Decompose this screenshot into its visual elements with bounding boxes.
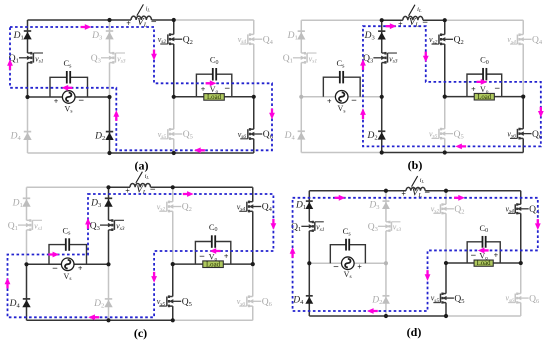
(d) wire q5-rail-upper [445, 263, 447, 294]
(a) transistor Q6 [240, 128, 262, 140]
(a) diode D2 [105, 132, 113, 140]
(d) capacitor Cs plates [346, 239, 349, 251]
(b) junction D3-top [380, 18, 384, 22]
(c) wire mid-rail-mid [108, 230, 110, 264]
(c) wire q2-rail-upper [172, 187, 174, 201]
(d) transistor Q4 [508, 203, 529, 214]
(d) resistor Load [474, 260, 493, 266]
(d) current arrow L [478, 248, 489, 254]
(c) wire mid-rail-lower [108, 264, 110, 320]
svg-text:(c): (c) [134, 326, 147, 340]
(a) source Vs [62, 91, 75, 104]
(d) inductor L [406, 187, 425, 190]
(b) wire q4-rail-mid [522, 44, 524, 97]
(b) wire source-right [348, 96, 382, 98]
(d) wire load-bus [446, 262, 521, 264]
(d) wire q4-rail-upper [520, 191, 522, 205]
svg-text:(b): (b) [408, 158, 423, 172]
(d) inductor current arrow iL [412, 176, 418, 187]
(a) current arrow D [269, 109, 275, 120]
(c) junction load-right [251, 262, 255, 266]
(a) transistor Q2 [160, 33, 182, 45]
(a) diode D3 [105, 31, 113, 39]
(a) wire q5-rail-lower [173, 139, 175, 153]
(a) inductor current arrow iL [137, 4, 144, 15]
(d) diode D1 [305, 201, 313, 209]
(b) wire top-mid-left [382, 19, 403, 21]
(d) capacitor Cs box [330, 245, 365, 264]
(c) wire source-right [74, 263, 109, 265]
(d) source Vs [342, 257, 355, 270]
(d) transistor Q1 [301, 221, 323, 232]
(a) resistor Load [204, 94, 225, 101]
(a) junction bottom-D2 [107, 151, 111, 155]
svg-text:+: + [494, 251, 499, 260]
(d) wire left-rail-upper [308, 191, 310, 222]
(a) wire q4-rail-upper [253, 20, 255, 34]
(d) wire top-left [309, 190, 386, 192]
svg-text:iL: iL [145, 173, 150, 180]
(b) wire q5-rail-lower [444, 138, 446, 152]
svg-text:−: − [494, 83, 500, 94]
(c) wire bottom-mid [109, 319, 173, 321]
(c) wire left-rail-lower [26, 264, 28, 320]
(d) transistor Q5 [433, 293, 454, 304]
svg-text:(a): (a) [135, 159, 149, 173]
(a) junction load-right [252, 95, 256, 99]
svg-text:Load: Load [477, 260, 492, 267]
(b) capacitor Cs plates [340, 71, 343, 83]
(c) capacitor Cd plates [212, 235, 215, 248]
(b) capacitor Cs box [323, 77, 360, 97]
(a) diode D1 [23, 31, 31, 39]
(d) junction Q2-top [444, 189, 448, 193]
(c) wire top-mid-left [109, 186, 131, 188]
(a) wire q6-rail-lower [253, 139, 255, 153]
(a) current arrow D [151, 50, 157, 61]
(c) wire source-left [27, 263, 62, 265]
svg-text:(d): (d) [407, 325, 422, 339]
(d) junction D3-top [384, 189, 388, 193]
svg-text:−: − [333, 262, 339, 273]
(c) wire q4-rail-mid [252, 211, 254, 264]
(b) junction Vs-left [299, 95, 303, 99]
(c) current path (dashed) [8, 194, 274, 317]
(d) transistor Q3 [378, 221, 400, 232]
(a) transistor Q1 [19, 52, 43, 64]
(a) wire mid-rail-upper [109, 20, 111, 53]
(d) junction bottom-D2 [384, 314, 388, 318]
(a) wire q5-rail-upper [173, 97, 175, 129]
(a) junction D3-top [107, 18, 111, 22]
(b) transistor Q5 [432, 128, 454, 140]
(a) capacitor Cd box [196, 74, 231, 97]
(a) wire bottom-mid [110, 152, 174, 154]
(d) wire mid-rail-lower [385, 263, 387, 316]
(c) wire top-right [173, 186, 253, 188]
(c) wire mid-rail-upper [108, 187, 110, 220]
(b) transistor Q4 [510, 33, 532, 45]
(c) wire q6-rail-lower [252, 306, 254, 320]
(b) wire top-left [301, 19, 381, 21]
(a) current arrow L [62, 85, 73, 91]
(a) current arrow L [194, 147, 205, 153]
(a) wire q2-rail-upper [173, 20, 175, 34]
svg-text:−: − [351, 95, 357, 106]
(a) junction load-left [172, 95, 176, 99]
(a) wire top-mid-right [152, 19, 174, 21]
(d) wire left-rail-mid [308, 231, 310, 263]
(d) transistor Q6 [508, 293, 529, 304]
(a) wire left-rail-mid [27, 63, 29, 97]
(d) capacitor Cd plates [482, 236, 485, 248]
(b) wire q2-rail-mid [444, 44, 446, 97]
(c) current arrow L [88, 314, 99, 320]
(b) current arrow D [423, 52, 429, 63]
(a) current arrow U [7, 59, 13, 70]
(a) wire top-left [28, 19, 110, 21]
(b) junction bottom-Q5 [443, 150, 447, 154]
(c) current arrow D [151, 272, 157, 283]
(d) junction load-left [444, 261, 448, 265]
(b) diode D4 [297, 131, 305, 139]
(d) wire q2-rail-upper [445, 191, 447, 205]
(c) transistor Q3 [100, 219, 124, 231]
(b) wire left-rail-lower [300, 97, 302, 153]
(b) junction load-left [443, 95, 447, 99]
(c) transistor Q6 [239, 295, 261, 307]
(a) transistor Q3 [101, 52, 125, 64]
(b) wire top-right [445, 19, 523, 21]
(c) wire bottom-right [173, 319, 253, 321]
(b) transistor Q1 [293, 52, 317, 64]
(b) diode D2 [378, 131, 386, 139]
svg-text:+: + [327, 97, 332, 106]
(d) wire top-mid-right [425, 190, 446, 192]
(a) wire q2-rail-mid [173, 44, 175, 97]
(d) wire source-left [309, 262, 342, 264]
(b) transistor Q6 [510, 128, 532, 140]
(c) current arrow R [183, 191, 194, 197]
(d) current arrow U [290, 247, 296, 258]
(b) diode D1 [297, 31, 305, 39]
(b) diode D3 [378, 31, 386, 39]
(c) current arrow L [210, 248, 221, 254]
(a) wire left-rail-upper [27, 20, 29, 53]
(c) transistor Q2 [159, 201, 181, 213]
(a) current arrow U [113, 110, 119, 121]
(c) wire left-rail-upper [26, 187, 28, 220]
(a) junction bottom-Q5 [172, 151, 176, 155]
(d) junction Vs-right [384, 261, 388, 265]
(c) junction Vs-left [24, 262, 28, 266]
(d) wire left-rail-lower [308, 263, 310, 316]
(c) transistor Q4 [239, 201, 261, 213]
(c) current arrow U [5, 278, 11, 289]
(c) wire q6-rail-upper [252, 264, 254, 296]
(d) current arrow D [535, 219, 541, 230]
(b) junction Vs-right [380, 95, 384, 99]
(c) current arrow D [271, 219, 277, 230]
(c) junction bottom-Q5 [171, 318, 175, 322]
(d) transistor Q2 [433, 203, 454, 214]
(c) transistor Q1 [18, 219, 42, 231]
(c) wire left-rail-mid [26, 230, 28, 264]
(c) wire load-bus [173, 263, 253, 265]
svg-text:+: + [78, 264, 83, 273]
(c) current arrow U [85, 218, 91, 229]
(b) wire left-rail-upper [300, 20, 302, 53]
(b) wire source-left [301, 96, 335, 98]
svg-text:+: + [54, 97, 59, 106]
svg-text:+: + [357, 262, 362, 271]
(c) junction bottom-D2 [106, 318, 110, 322]
(d) wire top-mid-left [386, 190, 406, 192]
(b) junction bottom-D2 [380, 150, 384, 154]
(c) wire q2-rail-mid [172, 211, 174, 264]
(c) diode D4 [22, 299, 30, 307]
(b) wire q5-rail-upper [444, 97, 446, 129]
(a) transistor Q4 [240, 33, 262, 45]
(b) source Vs [335, 91, 348, 104]
(d) junction load-right [519, 261, 523, 265]
(d) junction Vs-left [307, 261, 311, 265]
(b) current arrow R [386, 23, 397, 29]
(c) junction Q2-top [171, 185, 175, 189]
(c) capacitor Cs plates [66, 238, 69, 251]
svg-text:−: − [78, 96, 84, 107]
(b) current arrow L [455, 143, 466, 149]
(a) capacitor Cd plates [213, 68, 216, 81]
(a) junction Vs-left [25, 95, 29, 99]
(b) current arrow D [538, 107, 544, 118]
(a) junction Q2-top [172, 18, 176, 22]
(b) junction load-right [521, 95, 525, 99]
(b) capacitor Cd plates [483, 68, 486, 80]
(d) wire q4-rail-mid [520, 213, 522, 263]
(b) transistor Q2 [432, 33, 454, 45]
(b) wire bottom-mid [382, 152, 445, 154]
(a) capacitor Cs box [50, 77, 88, 97]
(c) junction D3-top [106, 185, 110, 189]
svg-text:Load: Load [207, 94, 222, 101]
svg-text:+: + [201, 85, 206, 94]
(c) wire top-mid-right [151, 186, 173, 188]
(a) wire source-left [28, 96, 63, 98]
(d) wire mid-rail-upper [385, 191, 387, 222]
(b) wire load-bus [445, 96, 523, 98]
(c) capacitor Cd box [195, 242, 230, 265]
(a) wire top-right [174, 19, 254, 21]
(a) transistor Q5 [160, 128, 182, 140]
(d) wire top-right [446, 190, 521, 192]
(b) wire mid-rail-mid [381, 63, 383, 97]
(a) junction Vs-right [107, 95, 111, 99]
(c) wire top-left [27, 186, 109, 188]
(d) current arrow R [454, 195, 465, 201]
(a) wire mid-rail-lower [109, 97, 111, 153]
(d) wire q5-rail-lower [445, 303, 447, 316]
(c) junction Vs-right [106, 262, 110, 266]
(a) wire q4-rail-mid [253, 44, 255, 97]
(d) wire mid-rail-mid [385, 231, 387, 263]
svg-text:+: + [224, 252, 229, 261]
(c) source Vs [61, 258, 74, 271]
(c) wire q5-rail-lower [172, 306, 174, 320]
(b) wire q6-rail-lower [522, 138, 524, 152]
(b) current arrow U [360, 108, 366, 119]
svg-text:−: − [52, 264, 58, 275]
(b) capacitor Cd box [467, 74, 502, 96]
(d) wire q6-rail-upper [520, 263, 522, 294]
(a) wire q6-rail-upper [253, 97, 255, 129]
(d) capacitor Cd box [467, 242, 500, 263]
(a) wire load-bus [174, 96, 254, 98]
(b) inductor L [403, 16, 423, 20]
(c) inductor L [130, 183, 150, 187]
(b) transistor Q3 [373, 52, 397, 64]
(b) wire bottom-right [445, 152, 523, 154]
(c) capacitor Cs box [49, 245, 87, 265]
(c) inductor current arrow iL [136, 172, 143, 183]
svg-text:+: + [471, 85, 476, 94]
(c) diode D1 [22, 198, 30, 206]
(d) wire q6-rail-lower [520, 303, 522, 316]
(b) wire q6-rail-upper [522, 97, 524, 129]
(d) wire bottom-mid [386, 315, 446, 317]
(b) resistor Load [474, 93, 494, 100]
(a) inductor L [131, 16, 151, 20]
(b) current arrow U [360, 59, 366, 70]
(d) diode D2 [382, 296, 390, 304]
(b) wire top-mid-right [423, 19, 445, 21]
(a) diode D4 [23, 132, 31, 140]
svg-text:−: − [224, 84, 230, 95]
(b) wire mid-rail-lower [381, 97, 383, 153]
(a) capacitor Cs plates [67, 71, 70, 84]
(d) current arrow L [367, 308, 378, 314]
(c) diode D2 [104, 299, 112, 307]
svg-text:Load: Load [206, 261, 221, 268]
(d) wire bottom-left [309, 315, 386, 317]
(b) inductor current arrow iL [409, 5, 415, 16]
(a) wire mid-rail-mid [109, 63, 111, 97]
(d) wire bottom-right [446, 315, 521, 317]
(b) wire q2-rail-upper [444, 20, 446, 34]
(a) current arrow R [206, 80, 217, 86]
svg-text:iL: iL [417, 6, 422, 13]
(b) wire left-rail-mid [300, 63, 302, 97]
svg-text:iL: iL [146, 6, 151, 13]
(b) junction Q2-top [443, 18, 447, 22]
(a) wire source-right [75, 96, 110, 98]
svg-text:iL: iL [420, 177, 425, 184]
(a) wire top-mid-left [110, 19, 132, 21]
(d) junction bottom-Q5 [444, 314, 448, 318]
(a) wire left-rail-lower [27, 97, 29, 153]
(d) wire source-right [354, 262, 386, 264]
(a) wire bottom-right [174, 152, 254, 154]
(d) current path (dashed) [293, 198, 538, 311]
(c) wire bottom-left [27, 319, 109, 321]
(c) wire q5-rail-upper [172, 264, 174, 296]
(c) current arrow R [48, 252, 59, 258]
(b) wire bottom-left [301, 152, 381, 154]
(c) junction load-left [171, 262, 175, 266]
(c) diode D3 [104, 198, 112, 206]
(b) wire mid-rail-upper [381, 20, 383, 53]
(c) resistor Load [203, 261, 224, 268]
(d) diode D3 [382, 201, 390, 209]
(a) current path (dashed) [10, 27, 272, 150]
(b) current path (dashed) [363, 26, 541, 146]
(a) wire bottom-left [28, 152, 110, 154]
(b) current arrow R [477, 79, 488, 85]
(a) current arrow R [81, 24, 92, 30]
(c) wire q4-rail-upper [252, 187, 254, 201]
(d) current arrow R [335, 195, 346, 201]
(d) wire q2-rail-mid [445, 213, 447, 263]
(b) wire q4-rail-upper [522, 20, 524, 34]
(d) diode D4 [305, 296, 313, 304]
(c) transistor Q5 [159, 295, 181, 307]
svg-text:Load: Load [477, 94, 492, 101]
(d) current arrow D [425, 270, 431, 281]
